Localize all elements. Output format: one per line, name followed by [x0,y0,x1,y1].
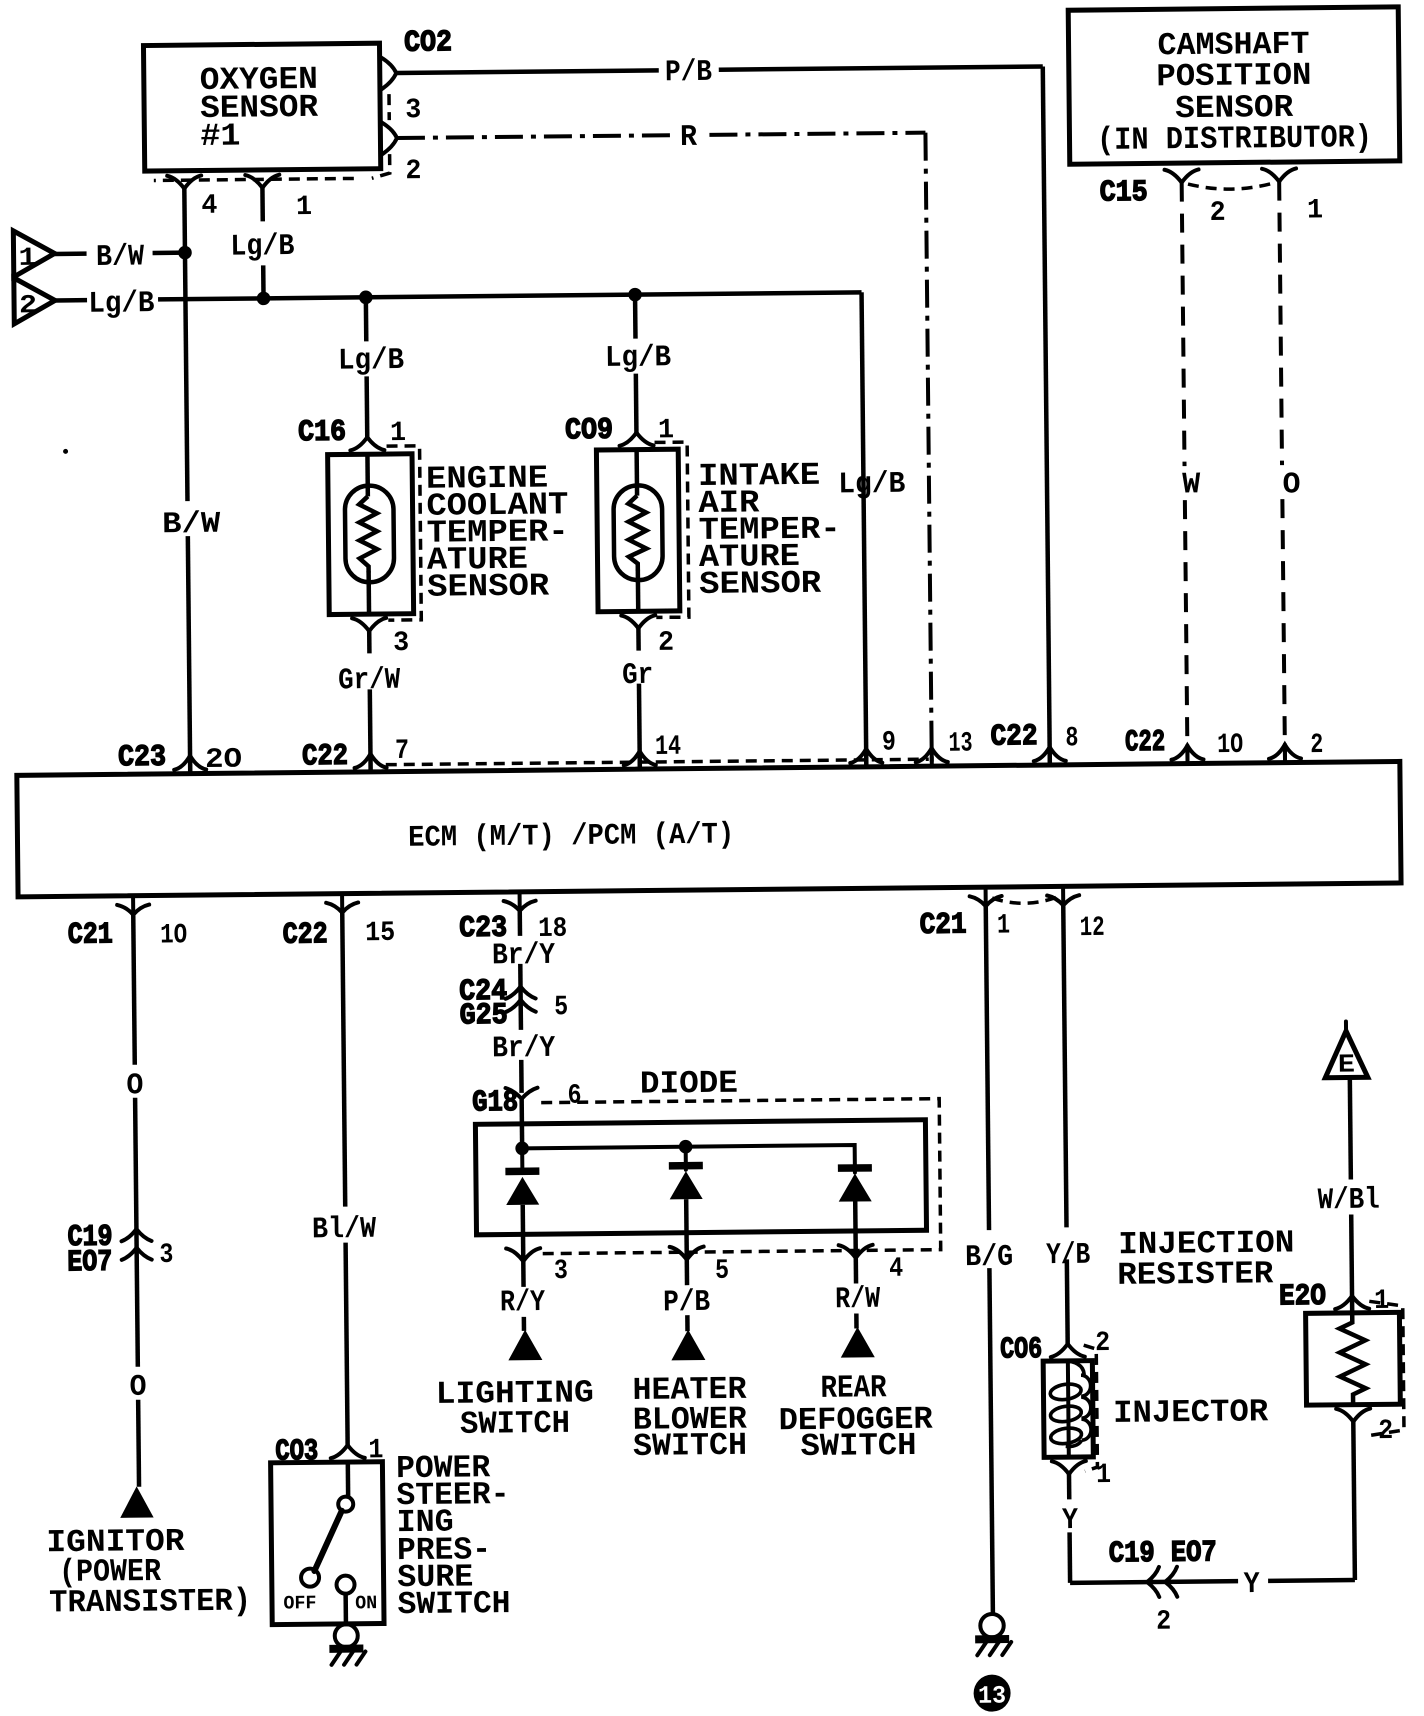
injector C06 body with coil [1043,1361,1093,1458]
svg-text:4: 4 [201,191,217,222]
svg-text:Y: Y [1244,1568,1260,1602]
svg-text:W/Bl: W/Bl [1317,1184,1379,1219]
svg-text:5: 5 [554,992,568,1023]
C15 pin 2 bracket [1165,169,1199,182]
C15 dashed bracket between pins [1188,183,1273,189]
svg-text:C21: C21 [919,909,966,943]
C16 pin 1 bracket [350,437,384,450]
diode D2 [669,1147,704,1200]
svg-text:1: 1 [296,192,312,223]
svg-text:2: 2 [405,156,421,187]
svg-text:C15: C15 [1099,176,1147,210]
svg-text:R/W: R/W [835,1283,880,1317]
C09 pin 1 bracket [619,432,653,445]
diode pin 3 bracket [506,1248,540,1261]
svg-text:CO9: CO9 [565,414,613,448]
oxygen pin 4 bracket [167,175,201,188]
svg-text:2: 2 [1156,1607,1171,1638]
svg-text:EO7: EO7 [1171,1536,1217,1570]
ECM top pin 8 bracket [1034,747,1066,761]
junction node diode 1 [515,1141,529,1155]
svg-text:RESISTER: RESISTER [1117,1255,1274,1294]
C02 pin bracket pin 3 [381,57,397,90]
svg-text:1: 1 [1096,1460,1111,1491]
ECM top pin C23-20 bracket [174,755,206,769]
injection resister E20 body [1306,1312,1401,1405]
svg-text:B/W: B/W [162,508,220,543]
svg-text:Br/Y: Br/Y [492,1032,555,1067]
stray scan dot [63,449,68,454]
svg-text:13: 13 [978,1682,1006,1711]
svg-text:Lg/B: Lg/B [605,341,671,376]
wire W/Bl from E20 to E triangle [1350,1077,1352,1312]
wire B/W from triangle 1 [55,253,185,254]
wire Br/Y from ECM pin 18 [520,911,522,1093]
C15 pin 1 bracket [1262,168,1296,181]
svg-text:3: 3 [405,95,421,126]
svg-text:6: 6 [567,1081,581,1112]
connector C19/E07 chevrons [121,1229,151,1260]
svg-text:1: 1 [1307,195,1323,226]
svg-text:1O: 1O [160,920,187,951]
diode common bus wire [522,1145,855,1176]
diode assembly box [475,1120,926,1235]
svg-text:3: 3 [159,1240,173,1271]
svg-text:Y/B: Y/B [1046,1239,1090,1273]
wire Y horizontal run [1068,1421,1354,1582]
ECM top pin 2 bracket [1269,744,1301,758]
junction node at C09 branch [628,288,642,302]
lighting switch label [436,1374,595,1443]
svg-text:C19: C19 [1109,1537,1155,1571]
svg-text:5: 5 [715,1256,729,1287]
svg-text:(IN DISTRIBUTOR): (IN DISTRIBUTOR) [1097,119,1372,159]
svg-text:Bl/W: Bl/W [312,1213,376,1248]
svg-text:P/B: P/B [663,1286,710,1320]
svg-text:Lg/B: Lg/B [338,344,404,379]
svg-text:Y: Y [1062,1504,1078,1538]
junction node diode 2 [679,1140,693,1154]
ECM top pin 10 bracket [1171,745,1203,759]
svg-text:C22: C22 [283,918,328,952]
wire Bl/W to C03 [342,913,347,1446]
diode assembly dashed outline [538,1099,941,1254]
ECM bottom pin 12 bracket [1047,895,1079,905]
svg-text:O: O [129,1371,146,1405]
C19 E07 label [1109,1536,1217,1571]
C09 dashed connector outline [655,442,689,617]
svg-text:1: 1 [18,243,36,273]
svg-text:E: E [1338,1049,1355,1079]
svg-text:2: 2 [1378,1416,1393,1447]
svg-text:SWITCH: SWITCH [397,1585,510,1623]
switch lever inside C03 [300,1462,355,1594]
svg-text:13: 13 [948,728,972,759]
intake air temperature sensor C09 body [596,449,679,612]
connector C24/G25 chevrons [506,986,536,1012]
svg-text:C22: C22 [990,720,1037,754]
intake air temperature sensor label [698,457,841,603]
svg-text:W: W [1182,468,1200,502]
svg-text:7: 7 [395,736,409,767]
dashed harness line above ECM top edge [386,759,929,764]
svg-text:Lg/B: Lg/B [230,230,294,265]
wire R dash-dot from oxygen sensor [397,133,932,772]
lighting switch off-page triangle [508,1330,542,1361]
ECM top pin 14 bracket [624,751,656,765]
svg-text:14: 14 [655,732,681,763]
heater blower switch label [632,1371,748,1465]
power steering pressure switch box [271,1462,384,1625]
svg-text:C16: C16 [298,416,346,450]
diode D2 output wire [686,1199,687,1331]
svg-text:B/G: B/G [965,1241,1013,1275]
C09 pin 2 bracket [621,615,655,628]
diode D3 [838,1168,872,1202]
C06 pin 2 bracket [1051,1344,1085,1357]
wire Gr/W to ECM pin 7 [369,631,370,772]
wire Lg/B branch to C16 [366,297,367,437]
svg-text:O: O [126,1069,143,1103]
svg-text:R/Y: R/Y [500,1286,545,1320]
C06 dashed connector outline [1084,1345,1098,1471]
C16 pin 3 bracket [352,618,386,631]
connector C19 E07 chevrons on Y wire [1147,1567,1177,1597]
wire Gr to ECM pin 14 [638,628,639,769]
svg-text:2: 2 [1210,198,1226,229]
svg-text:1: 1 [997,910,1010,941]
connector G18 bracket [506,1088,538,1099]
svg-text:Lg/B: Lg/B [88,287,154,322]
diode D3 output wire [855,1201,856,1328]
wire Br/Y into diode box [519,1099,524,1149]
svg-text:2O: 2O [205,745,242,776]
diode pin 5 bracket [670,1247,704,1260]
svg-text:8: 8 [1065,723,1078,754]
svg-text:ON: ON [355,1592,377,1614]
E20 pin 2 bracket [1336,1409,1370,1422]
svg-text:Lg/B: Lg/B [838,468,905,503]
C03 pin 1 bracket [331,1445,365,1458]
heater blower switch off-page triangle [671,1330,705,1361]
C16 dashed connector outline [387,446,422,620]
ECM bottom pin C23-18 bracket [504,901,536,911]
svg-text:INJECTOR: INJECTOR [1113,1393,1269,1432]
oxygen pin 1 bracket [245,175,279,188]
svg-text:Gr: Gr [622,659,653,693]
INJECTION RESISTER label [1117,1224,1295,1293]
svg-text:#1: #1 [200,118,240,155]
svg-text:C21: C21 [68,918,113,952]
wire from ON to ground [343,1594,348,1624]
off-page connector triangle E [1325,1021,1368,1079]
rear defogger switch label [778,1369,934,1466]
ECM bottom pin C21-1 bracket [970,896,1002,906]
svg-text:EO7: EO7 [67,1246,112,1280]
E20 dashed connector outline [1369,1301,1404,1435]
dashed bracket between pins 1 and 12 [992,897,1056,903]
wire P/B from oxygen sensor [396,66,1050,771]
wire O dashed to ECM C22 pin 2 [1279,182,1285,763]
E20 pin 1 bracket [1335,1296,1369,1309]
svg-text:P/B: P/B [665,56,712,90]
oxygen sensor #1 box [143,43,380,171]
C02 pin bracket pin 2 [381,122,397,155]
C02 connector dashed outline [153,94,390,180]
off-page connector triangle 1 [13,230,54,276]
ECM bottom pin C21-10 bracket [117,905,149,915]
svg-text:G18: G18 [472,1086,518,1120]
diode pin 4 bracket [839,1245,873,1258]
engine coolant temperature sensor C16 body [328,454,414,615]
ECM top pin 9 bracket [850,749,882,763]
svg-text:3: 3 [554,1256,568,1287]
wire B/W vertical to ECM pin 20 [184,188,190,774]
svg-text:SENSOR: SENSOR [699,565,822,603]
wire Lg/B branch to C09 [635,295,636,435]
svg-text:CO2: CO2 [404,26,452,60]
diode D1 [505,1148,540,1205]
svg-text:DIODE: DIODE [640,1065,738,1103]
svg-text:C22: C22 [302,740,348,774]
power steering pressure switch label [396,1449,511,1623]
svg-text:B/W: B/W [96,240,144,274]
svg-text:CO6: CO6 [1000,1333,1042,1367]
ECM top pin C22-7 bracket [354,754,386,768]
junction node at pin1 drop [257,292,271,306]
svg-text:SWITCH: SWITCH [800,1427,916,1465]
svg-text:3: 3 [393,628,409,659]
svg-text:9: 9 [882,728,896,759]
ground symbol B/G [975,1614,1011,1656]
svg-text:TRANSISTER): TRANSISTER) [49,1583,251,1622]
camshaft position sensor box [1068,7,1400,164]
wire B/G from ECM C21 pin 1 [986,906,993,1614]
C06 pin 1 bracket [1052,1461,1086,1474]
svg-text:E2O: E2O [1279,1280,1326,1314]
svg-text:OFF: OFF [283,1592,316,1614]
ECM (M/T) /PCM (A/T) box [17,761,1401,896]
svg-text:15: 15 [365,918,395,949]
svg-text:2: 2 [1310,730,1323,761]
engine coolant temperature sensor label [426,459,569,605]
svg-text:4: 4 [889,1254,903,1285]
svg-text:12: 12 [1080,913,1105,944]
wire Lg/B pin1 drop [262,187,263,298]
ECM top pin 13 bracket [916,748,948,762]
junction node B/W [178,246,192,260]
svg-text:ECM (M/T) /PCM (A/T): ECM (M/T) /PCM (A/T) [408,818,734,855]
svg-text:Gr/W: Gr/W [338,664,400,699]
wire W dashed to ECM C22 pin 10 [1182,183,1188,764]
svg-text:C22: C22 [1125,726,1165,760]
diode D1 output wire [523,1205,524,1331]
wire Y below injector [1069,1474,1070,1583]
wire Y/B from ECM pin 12 [1063,905,1067,1344]
svg-text:Br/Y: Br/Y [492,939,555,974]
ignitor off-page triangle [120,1486,154,1518]
ground reference circled 13 [973,1674,1010,1711]
rear defogger switch off-page triangle [840,1327,874,1358]
svg-text:O: O [1282,468,1300,502]
svg-text:SWITCH: SWITCH [633,1427,747,1465]
svg-text:R: R [680,121,697,155]
svg-text:G25: G25 [460,999,508,1033]
svg-text:SWITCH: SWITCH [460,1405,570,1443]
svg-text:SENSOR: SENSOR [427,568,550,606]
ignitor (power transister) label [46,1522,251,1621]
svg-text:C23: C23 [118,741,166,775]
svg-text:2: 2 [658,628,674,659]
wire O to ignitor [133,915,139,1487]
svg-text:1O: 1O [1217,730,1243,761]
ground symbol below C03 [329,1624,365,1665]
wire Lg/B bus from triangle 2 [55,292,866,775]
junction node at C16 branch [359,290,373,304]
svg-text:2: 2 [19,290,37,320]
off-page connector triangle 2 [14,277,55,323]
ECM bottom pin C22-15 bracket [326,902,358,912]
